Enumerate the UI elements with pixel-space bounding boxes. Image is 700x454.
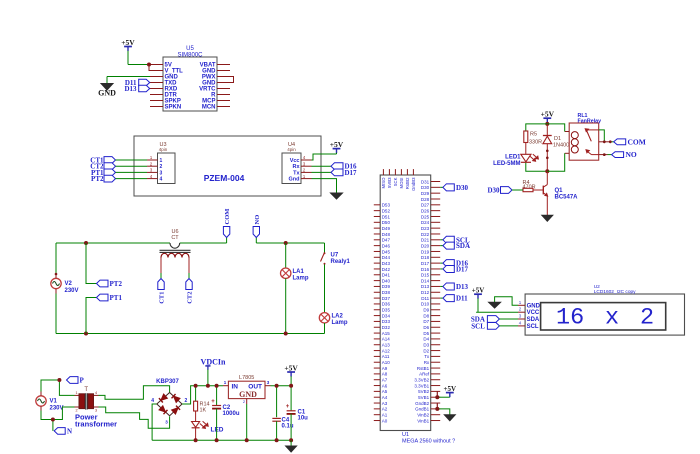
- svg-text:1K: 1K: [200, 408, 207, 414]
- regulator U8 L7805: [223, 375, 271, 404]
- svg-text:VCC: VCC: [527, 310, 540, 316]
- wire PWX-GND loop: [230, 77, 234, 83]
- svg-text:SDA: SDA: [527, 317, 540, 323]
- svg-text:PT2: PT2: [110, 280, 123, 288]
- wire L7805 OUT to +5V: [271, 385, 292, 387]
- svg-text:D20: D20: [421, 243, 430, 248]
- svg-text:A12: A12: [382, 348, 391, 353]
- LED indicator: [192, 421, 224, 440]
- svg-text:KBP307: KBP307: [156, 379, 179, 385]
- svg-text:+5V: +5V: [541, 110, 555, 119]
- svg-text:D30: D30: [487, 187, 500, 195]
- port SDA to U2: [471, 316, 518, 324]
- svg-text:SIM800C: SIM800C: [177, 53, 203, 59]
- U1 left pins D53-A0: [374, 203, 391, 424]
- mcu U1 MEGA 2560 body: [380, 175, 455, 444]
- svg-text:D35: D35: [382, 308, 391, 313]
- svg-text:D38: D38: [382, 290, 391, 295]
- svg-text:VinB1: VinB1: [417, 418, 429, 423]
- svg-text:N: N: [67, 427, 72, 435]
- svg-text:PZEM-004: PZEM-004: [204, 173, 245, 183]
- svg-text:LED1: LED1: [505, 155, 521, 161]
- svg-text:4: 4: [95, 391, 97, 395]
- node junction below LA1: [284, 332, 288, 336]
- svg-text:A1: A1: [382, 413, 388, 418]
- transformer U6 CT current transformer: [160, 229, 191, 279]
- svg-text:D51: D51: [382, 214, 391, 219]
- wire +5V to U2 VCC: [476, 295, 518, 313]
- wire transformer pin4 to bridge top: [99, 386, 170, 400]
- node junction at P: [57, 378, 61, 382]
- diode bridge KBP307: [151, 393, 187, 425]
- svg-text:D30: D30: [421, 185, 430, 190]
- wire AC top from V2 to COM port: [56, 242, 227, 244]
- svg-text:Tx: Tx: [293, 170, 300, 176]
- wire to PT1 port: [86, 298, 97, 334]
- relay NO contact wire: [599, 154, 612, 156]
- resistor R14 1K: [194, 386, 210, 422]
- svg-text:LA1: LA1: [293, 269, 305, 275]
- svg-text:GND: GND: [239, 390, 257, 399]
- svg-text:4pin: 4pin: [159, 147, 168, 152]
- svg-text:D36: D36: [382, 302, 391, 307]
- node junction U1 GND: [435, 407, 439, 411]
- svg-text:D3: D3: [423, 343, 429, 348]
- svg-text:1000u: 1000u: [223, 411, 240, 417]
- port NO top of AC loop: [253, 227, 259, 244]
- node junction VDCIn: [206, 384, 210, 388]
- svg-text:L7805: L7805: [239, 375, 254, 381]
- wire AC loop left and bottom: [56, 243, 325, 334]
- svg-text:D44: D44: [382, 255, 391, 260]
- lcd text 16 x 2: [556, 305, 654, 332]
- wire U1 GND pins to ground: [437, 403, 450, 415]
- svg-text:GND: GND: [98, 89, 116, 98]
- svg-text:5VB2: 5VB2: [418, 389, 430, 394]
- port SDA from U1 D20: [440, 242, 470, 250]
- port D30 from U1: [440, 184, 468, 192]
- switch U7 Realy1: [321, 243, 351, 313]
- capacitor C1 10u: [286, 386, 308, 441]
- wire +5V to R5: [526, 124, 548, 131]
- svg-text:COM: COM: [628, 137, 646, 146]
- U5 right pins VBAT GND PWX GND VRTC R MCP MCN: [199, 63, 230, 111]
- node junction R14 top: [194, 384, 198, 388]
- svg-text:Q1: Q1: [555, 188, 564, 194]
- svg-text:LCD1602_I2C copy: LCD1602_I2C copy: [594, 289, 636, 295]
- svg-text:x: x: [605, 305, 619, 332]
- svg-text:10u: 10u: [298, 416, 309, 422]
- svg-text:LA2: LA2: [332, 314, 344, 320]
- svg-text:GndB1: GndB1: [415, 407, 430, 412]
- wire U1 5V pins to +5V: [437, 391, 450, 397]
- svg-text:D21: D21: [421, 238, 430, 243]
- node junction U1 5V: [435, 395, 439, 399]
- node junction C2 top: [215, 384, 219, 388]
- node junction C4 top: [275, 384, 279, 388]
- svg-text:A10: A10: [382, 360, 391, 365]
- svg-text:PT2: PT2: [91, 175, 104, 183]
- label CT1 rotated: [159, 292, 166, 304]
- U5 left pins 5V V_TTL GND TXD RXD DTR SPKP SPKN: [150, 63, 183, 111]
- svg-text:RstB1: RstB1: [417, 366, 430, 371]
- U1 top pins MISO 5VB3 SCK MOSI RstB2 GndB3: [381, 169, 416, 191]
- svg-text:D52: D52: [382, 208, 391, 213]
- svg-text:U1: U1: [402, 432, 409, 438]
- ground symbol below U4: [331, 193, 343, 199]
- node junction collector: [545, 169, 549, 173]
- svg-text:P: P: [80, 377, 85, 385]
- svg-text:ARef: ARef: [419, 372, 430, 377]
- svg-text:RstB2: RstB2: [405, 177, 410, 189]
- port D13 from U1: [440, 283, 468, 291]
- ground symbol PSU: [286, 440, 297, 452]
- svg-text:D23: D23: [421, 226, 430, 231]
- svg-text:D11: D11: [456, 295, 468, 303]
- lamp LA2: [319, 313, 348, 334]
- svg-text:+: +: [286, 404, 290, 410]
- svg-text:A0: A0: [382, 418, 388, 423]
- svg-text:D13: D13: [456, 283, 469, 291]
- svg-text:230V: 230V: [65, 288, 79, 294]
- svg-text:D43: D43: [382, 261, 391, 266]
- wire ground rail bottom: [152, 439, 291, 441]
- capacitor C4 0.1u: [272, 386, 293, 441]
- port CT1: [90, 157, 115, 165]
- wire U4 Gnd to ground: [312, 179, 337, 193]
- svg-text:D6: D6: [423, 325, 429, 330]
- lamp LA1: [281, 243, 309, 334]
- svg-text:SPKN: SPKN: [165, 105, 182, 111]
- svg-text:D45: D45: [382, 249, 391, 254]
- svg-text:PT1: PT1: [110, 294, 123, 302]
- label CT2 rotated: [187, 292, 194, 304]
- wire +5V to U5 5V pin: [128, 64, 150, 66]
- wire U2 GND to ground flag: [495, 297, 518, 306]
- svg-text:A8: A8: [382, 372, 388, 377]
- port P: [67, 377, 85, 385]
- wire to PT2 port: [86, 243, 97, 284]
- svg-text:D19: D19: [421, 249, 430, 254]
- svg-text:Lamp: Lamp: [332, 320, 348, 326]
- power flag +5V at PSU output: [284, 364, 298, 386]
- port PT2 in AC loop: [97, 280, 123, 288]
- svg-text:0.1u: 0.1u: [282, 424, 294, 430]
- wire relay common to COM: [599, 130, 605, 142]
- svg-text:D41: D41: [382, 273, 391, 278]
- port D17 from U4 Tx: [312, 169, 358, 177]
- svg-text:D37: D37: [382, 296, 391, 301]
- power flag +5V at U2 VCC: [472, 287, 485, 313]
- node junction +5V C1: [289, 384, 293, 388]
- svg-text:D33: D33: [382, 319, 391, 324]
- svg-text:D34: D34: [382, 313, 391, 318]
- svg-text:4pin: 4pin: [287, 147, 296, 152]
- svg-text:D46: D46: [382, 243, 391, 248]
- svg-text:D8: D8: [423, 313, 429, 318]
- svg-text:A13: A13: [382, 343, 391, 348]
- svg-text:D16: D16: [421, 267, 430, 272]
- svg-text:2: 2: [185, 398, 188, 404]
- svg-text:D30: D30: [456, 184, 469, 192]
- svg-text:Tx: Tx: [424, 354, 430, 359]
- svg-text:SCL: SCL: [527, 324, 539, 330]
- svg-text:A7: A7: [382, 378, 388, 383]
- svg-text:D17: D17: [345, 169, 358, 177]
- port CT1 below transformer: [158, 279, 164, 290]
- svg-text:MEGA 2560 without ?: MEGA 2560 without ?: [402, 438, 455, 444]
- svg-text:5VB3: 5VB3: [387, 177, 392, 188]
- svg-text:VDCIn: VDCIn: [201, 357, 226, 366]
- svg-text:3: 3: [160, 170, 163, 176]
- wire +5V to relay coil: [547, 124, 564, 132]
- lcd U2 LCD1602 I2C body: [525, 284, 684, 335]
- svg-text:D13: D13: [421, 284, 430, 289]
- port PT1 in AC loop: [97, 294, 123, 302]
- svg-text:D26: D26: [421, 208, 430, 213]
- node junction LED bottom: [194, 438, 198, 442]
- svg-text:A11: A11: [382, 354, 390, 359]
- svg-text:D24: D24: [421, 220, 430, 225]
- svg-text:5VB1: 5VB1: [418, 395, 430, 400]
- svg-text:VinB2: VinB2: [417, 413, 429, 418]
- svg-text:MOSI: MOSI: [399, 178, 404, 189]
- source V1 230V AC: [36, 392, 64, 412]
- source V2 230V AC: [51, 273, 79, 294]
- power flag +5V relay driver: [541, 110, 555, 124]
- wire relay coil to collector node: [547, 153, 564, 171]
- svg-text:D18: D18: [421, 255, 430, 260]
- svg-text:D49: D49: [382, 226, 391, 231]
- node junction at U5 5V pin: [147, 63, 151, 67]
- svg-text:BC547A: BC547A: [555, 195, 579, 201]
- U1 right pins D31-VinB1: [414, 179, 440, 423]
- svg-text:3.3VB2: 3.3VB2: [414, 378, 429, 383]
- port COM relay: [614, 137, 646, 146]
- svg-text:16: 16: [556, 305, 584, 332]
- svg-text:D39: D39: [382, 284, 391, 289]
- port PT1: [91, 169, 115, 177]
- svg-text:D17: D17: [421, 261, 430, 266]
- diode D1 1N4007: [543, 124, 572, 171]
- node junction C1 bottom: [289, 438, 293, 442]
- label Power transformer: [75, 413, 117, 429]
- transformer T power transformer: [75, 387, 99, 413]
- svg-text:GND: GND: [527, 303, 541, 309]
- svg-text:IN: IN: [232, 383, 239, 390]
- port D17 from U1 D16: [440, 265, 468, 273]
- svg-text:CT1: CT1: [159, 292, 166, 304]
- capacitor C2 1000u: [211, 386, 240, 441]
- port NO relay: [612, 150, 637, 159]
- svg-text:MCN: MCN: [202, 105, 216, 111]
- wire V1 bottom to port N and transformer: [41, 407, 75, 431]
- port N: [54, 427, 72, 435]
- svg-text:2: 2: [160, 164, 163, 170]
- LED1 LED-5MM: [493, 154, 538, 167]
- svg-text:3.3VB1: 3.3VB1: [414, 383, 429, 388]
- wire L7805 GND pin to rail: [246, 404, 248, 440]
- power flag +5V at U1: [444, 385, 457, 397]
- port D30 to R4: [487, 187, 523, 195]
- svg-text:A3: A3: [382, 401, 388, 406]
- svg-text:D48: D48: [382, 232, 391, 237]
- svg-text:D17: D17: [456, 265, 469, 273]
- svg-text:Rx: Rx: [424, 360, 430, 365]
- svg-text:A6: A6: [382, 383, 388, 388]
- svg-text:U7: U7: [331, 253, 339, 259]
- port CT2: [90, 163, 115, 171]
- node junction COM 1: [603, 140, 606, 143]
- ground GND symbol left of U5: [98, 77, 116, 98]
- node junction NO: [603, 153, 606, 156]
- wire junction to V_TTL: [149, 65, 150, 71]
- svg-text:D9: D9: [423, 308, 429, 313]
- svg-text:+5V: +5V: [330, 140, 344, 149]
- svg-text:CT: CT: [171, 235, 179, 241]
- svg-text:D12: D12: [421, 290, 430, 295]
- svg-text:D5: D5: [423, 331, 429, 336]
- svg-text:330R: 330R: [529, 140, 542, 146]
- wires CT1 CT2 PT1 PT2 to U3: [116, 160, 148, 179]
- svg-text:D22: D22: [421, 232, 430, 237]
- svg-text:D25: D25: [421, 214, 430, 219]
- svg-text:NO: NO: [626, 150, 637, 159]
- wire transformer pin3 to bridge bottom: [99, 407, 170, 428]
- svg-text:D10: D10: [421, 302, 430, 307]
- connector U4 4pin: [282, 142, 301, 184]
- svg-text:D28: D28: [421, 197, 430, 202]
- port D13 to U5 RXD: [124, 85, 149, 93]
- net flag VDCIn: [201, 357, 226, 385]
- svg-text:D42: D42: [382, 267, 391, 272]
- svg-text:+: +: [211, 399, 215, 405]
- svg-text:Lamp: Lamp: [293, 276, 309, 282]
- node junction at N: [51, 418, 55, 422]
- resistor R5 330R: [524, 131, 542, 154]
- svg-text:A4: A4: [382, 395, 388, 400]
- connector U3 4pin: [158, 142, 176, 184]
- port SCL to U2: [471, 322, 518, 330]
- U4 pins Vcc Rx Tx Gnd: [289, 155, 312, 182]
- svg-text:Realy1: Realy1: [331, 259, 351, 265]
- svg-text:D11: D11: [421, 296, 429, 301]
- node junction COM 2: [609, 140, 612, 143]
- svg-text:Rx: Rx: [292, 164, 300, 170]
- transistor Q1 BC547A: [543, 171, 578, 215]
- svg-text:D40: D40: [382, 278, 391, 283]
- module PZEM-004 outer box: [134, 136, 321, 196]
- svg-text:D7: D7: [423, 319, 429, 324]
- svg-text:230V: 230V: [50, 406, 64, 412]
- svg-text:Gnd: Gnd: [289, 177, 300, 183]
- label COM rotated: [224, 209, 231, 225]
- wire LED1 to collector node: [526, 163, 548, 172]
- svg-text:COM: COM: [224, 209, 231, 225]
- svg-text:V1: V1: [50, 399, 58, 405]
- svg-text:SCL: SCL: [471, 322, 485, 330]
- svg-text:V2: V2: [65, 281, 73, 287]
- svg-text:4: 4: [160, 177, 163, 183]
- svg-text:D29: D29: [421, 191, 430, 196]
- svg-text:MISO: MISO: [381, 177, 386, 189]
- svg-text:1: 1: [75, 391, 77, 395]
- svg-text:D31: D31: [421, 179, 430, 184]
- svg-text:D1: D1: [554, 136, 561, 142]
- svg-text:SCK: SCK: [393, 177, 398, 186]
- node junction L7805 GND: [245, 438, 249, 442]
- port CT2 below transformer: [186, 279, 192, 290]
- port D11 to U5 TXD: [125, 79, 150, 87]
- ground symbol Q1 emitter: [542, 215, 553, 221]
- node junction +5V relay: [545, 122, 549, 126]
- node junction top left: [84, 241, 88, 245]
- port SCL from U1 D21: [440, 236, 470, 244]
- label KBP307: [156, 379, 179, 385]
- wire U5 GND to ground: [107, 76, 150, 78]
- svg-text:A2: A2: [382, 407, 388, 412]
- svg-text:D14: D14: [421, 278, 430, 283]
- svg-text:A9: A9: [382, 366, 388, 371]
- svg-text:1: 1: [160, 158, 163, 164]
- wire V1 top to port P and transformer: [41, 380, 75, 395]
- power flag +5V for U5: [121, 38, 135, 65]
- svg-text:R5: R5: [530, 132, 537, 138]
- svg-text:D50: D50: [382, 220, 391, 225]
- svg-text:D2: D2: [423, 348, 429, 353]
- port D16 from U1 D17: [440, 260, 468, 268]
- node junction above LA1: [284, 241, 288, 245]
- svg-text:T: T: [84, 387, 88, 393]
- lcd display window: [541, 303, 666, 330]
- svg-text:NO: NO: [254, 215, 261, 225]
- svg-text:A15: A15: [382, 331, 391, 336]
- node junction C2 bottom: [215, 438, 219, 442]
- U3 pins 1-4: [147, 155, 163, 182]
- svg-text:D32: D32: [382, 325, 391, 330]
- ic U5 SIM800C body: [163, 46, 217, 111]
- svg-text:Vcc: Vcc: [290, 158, 300, 164]
- node junction C4 bottom: [275, 438, 279, 442]
- U2 pins GND VCC SDA SCL: [518, 300, 541, 330]
- ground symbol at U1: [444, 415, 455, 421]
- ground symbol at U2: [489, 302, 501, 308]
- svg-text:4: 4: [151, 398, 154, 404]
- resistor R4 470R: [523, 180, 544, 192]
- svg-text:U5: U5: [186, 46, 194, 52]
- svg-text:D13: D13: [124, 85, 137, 93]
- svg-text:LED: LED: [211, 427, 224, 434]
- port COM top of AC loop: [223, 227, 229, 244]
- svg-text:2: 2: [640, 305, 654, 332]
- svg-text:D15: D15: [421, 273, 430, 278]
- svg-text:LED-5MM: LED-5MM: [493, 161, 520, 167]
- port PT2: [91, 175, 115, 183]
- relay RL1 FanRelay: [565, 113, 601, 160]
- port D16 from U4 Rx: [312, 163, 358, 171]
- svg-text:D27: D27: [421, 203, 430, 208]
- svg-text:SDA: SDA: [456, 242, 470, 250]
- svg-text:CT2: CT2: [187, 292, 194, 304]
- relay COM contact wire: [599, 141, 614, 143]
- wire bridge left corner to ground rail: [152, 404, 157, 440]
- svg-text:A14: A14: [382, 337, 391, 342]
- port D11 from U1: [440, 295, 468, 303]
- wire NO to lamps branch: [256, 242, 324, 244]
- svg-text:GndB3: GndB3: [411, 177, 416, 191]
- svg-text:D4: D4: [423, 337, 429, 342]
- svg-text:FanRelay: FanRelay: [578, 118, 602, 124]
